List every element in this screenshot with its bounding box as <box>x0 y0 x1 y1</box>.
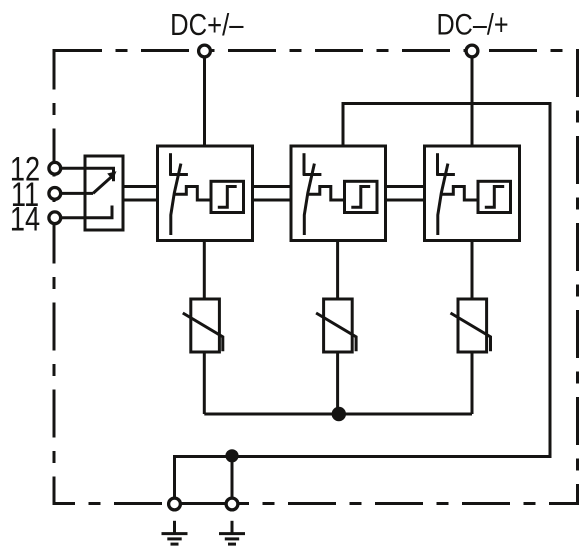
U2 switch blade <box>304 164 314 235</box>
varistor R2 stroke <box>316 313 356 351</box>
SCI switching device U1 box <box>158 146 253 241</box>
varistor R1 stroke <box>183 313 223 351</box>
earth terminal 2 <box>226 498 238 510</box>
SCI switching device U3 box <box>425 146 520 241</box>
changeover contact blade K1 <box>93 177 111 193</box>
junction dot on earth rail <box>225 449 238 462</box>
U1 trigger link <box>174 187 211 201</box>
U2 trigger unit square <box>345 181 378 212</box>
wire varistor R1 to bottom bus <box>203 352 206 414</box>
varistor R2 body <box>324 299 353 352</box>
U2 trigger step symbol <box>351 187 370 208</box>
U1 trigger unit square <box>211 181 244 212</box>
U1 disconnector post <box>169 153 172 175</box>
mechanical link U1 to U2 <box>253 185 292 188</box>
wire terminal 11 <box>55 192 93 195</box>
wire DC+/- terminal to U1 top <box>203 51 206 146</box>
wire U1 bottom to varistor R1 <box>203 241 206 300</box>
terminal DC-/+ <box>466 45 478 57</box>
varistor R3 stroke <box>451 313 491 351</box>
wire U2 bottom to varistor R2 <box>336 241 339 300</box>
svg-text:DC–/+: DC–/+ <box>436 7 508 41</box>
remote signalling contact box <box>85 156 123 230</box>
mechanical link contact box to U1 <box>123 185 158 188</box>
wire terminal 14 with contact hook <box>55 206 112 218</box>
wire varistor R3 to bottom bus <box>471 352 474 414</box>
wire U2 top over to right side and down to earth rail <box>175 104 551 505</box>
U3 trigger unit square <box>478 181 511 212</box>
terminal 14 <box>49 212 61 224</box>
U1 contact bar <box>169 173 188 176</box>
U3 contact bar <box>436 173 455 176</box>
U1 trigger step symbol <box>218 187 237 208</box>
junction dot on bottom bus <box>332 407 346 421</box>
U2 disconnector post <box>303 153 306 175</box>
U3 disconnector post <box>436 153 439 175</box>
varistor R3 body <box>458 299 487 352</box>
U3 trigger step symbol <box>485 187 504 208</box>
U3 trigger link <box>441 187 478 201</box>
terminal 11 <box>49 188 61 200</box>
earth terminal 1 <box>169 498 181 510</box>
svg-text:14: 14 <box>10 200 40 239</box>
mechanical link U2 to U3 <box>386 185 425 188</box>
wire DC-/+ terminal to U3 top <box>471 51 474 146</box>
wire between earth terminals on enclosure edge <box>175 502 233 505</box>
U3 switch blade <box>438 164 448 235</box>
terminal DC+/- <box>199 45 211 57</box>
terminal 12 <box>49 162 61 174</box>
ground symbol 1 <box>162 521 188 544</box>
enclosure border (dash-dot outline) <box>54 51 578 504</box>
contact blade arrowhead <box>107 171 116 180</box>
svg-text:DC+/–: DC+/– <box>170 8 244 42</box>
U2 trigger link <box>308 187 345 201</box>
U1 switch blade <box>171 164 181 235</box>
SCI switching device U2 box <box>291 146 386 241</box>
wire terminal 12 with contact stub <box>55 168 114 181</box>
wire earth rail stub to terminal 2 <box>231 457 234 505</box>
wire U3 bottom to varistor R3 <box>471 241 474 300</box>
wire varistor R2 to bottom bus <box>336 352 339 414</box>
varistor R1 body <box>191 299 220 352</box>
bottom bus wire joining varistors <box>204 413 472 416</box>
ground symbol 2 <box>219 521 245 544</box>
U2 contact bar <box>303 173 322 176</box>
